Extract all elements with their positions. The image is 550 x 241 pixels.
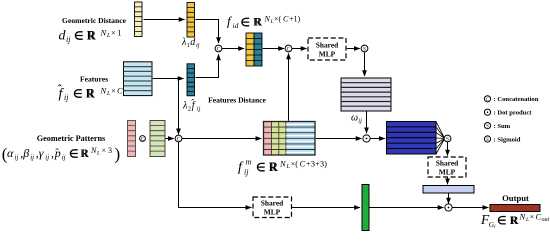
block: omega weights box (lavender striped) bbox=[341, 78, 391, 111]
wire: features to teal column arrow bbox=[153, 78, 184, 80]
wire: MLP3 down into attention bar bbox=[447, 178, 449, 185]
wire: C4 down then right to Shared MLP 2 bbox=[179, 142, 252, 208]
svg-text:L: L bbox=[525, 217, 529, 223]
svg-text:: Sum: : Sum bbox=[494, 123, 511, 130]
wire: f_id stack to C2 arrow bbox=[263, 48, 284, 50]
wire: S2 down into Shared MLP 3 bbox=[447, 142, 449, 156]
wire: C1 to f_id stack arrow bbox=[222, 48, 244, 50]
svg-text:×: × bbox=[530, 212, 535, 222]
wire: teal column right then up into C1 bbox=[196, 55, 219, 78]
svg-text:ˆ: ˆ bbox=[58, 81, 63, 96]
svg-text:: Dot product: : Dot product bbox=[494, 110, 533, 117]
block: pink pattern column bbox=[128, 121, 136, 157]
block: features box (striped light blue) bbox=[124, 62, 153, 96]
block: weighted feature stack (dark blue) bbox=[387, 122, 437, 155]
label: Geometric Distance bbox=[62, 16, 127, 25]
box: Shared MLP 2 (dashed, bottom) bbox=[253, 197, 292, 218]
svg-text:ij: ij bbox=[64, 93, 69, 102]
node: dot product circle D1 bbox=[363, 135, 370, 142]
svg-text:R: R bbox=[88, 29, 97, 43]
svg-text:S: S bbox=[486, 125, 489, 130]
svg-text:ij: ij bbox=[30, 154, 34, 162]
node: concatenation circle C3 (between pink and green) bbox=[140, 136, 146, 143]
svg-text:ij: ij bbox=[197, 106, 201, 113]
wire: bar down into dot product D2 bbox=[448, 193, 450, 203]
svg-text:Features Distance: Features Distance bbox=[208, 96, 266, 105]
svg-text:×: × bbox=[111, 28, 116, 38]
wire: f_ij^m stack up into C2 bbox=[288, 54, 290, 121]
legend: dot product bbox=[484, 109, 532, 117]
wire: omega box down into dot-product circle bbox=[366, 112, 368, 134]
svg-text:R: R bbox=[511, 213, 519, 227]
svg-text:Shared: Shared bbox=[436, 159, 459, 168]
box: Shared MLP 1 (dashed) bbox=[308, 38, 346, 60]
svg-text:ω: ω bbox=[351, 113, 358, 124]
wire: MLP1 to sigmoid arrow bbox=[347, 48, 360, 50]
wire: green bar to D2 arrow bbox=[369, 207, 443, 209]
block: green pattern column bbox=[150, 121, 165, 157]
svg-text:R: R bbox=[270, 160, 279, 174]
wire: col2 right then down into C1 bbox=[196, 20, 219, 44]
wire: MLP2 to green bar arrow bbox=[292, 207, 360, 209]
node: dot product circle D2 bbox=[445, 204, 452, 211]
svg-text:×: × bbox=[102, 146, 107, 155]
svg-text:N: N bbox=[90, 146, 97, 155]
block: geometric distance column (pale yellow) bbox=[135, 2, 143, 37]
svg-text:Shared: Shared bbox=[261, 199, 284, 208]
wire: D2 to output bar arrow bbox=[453, 207, 489, 209]
node: sum circle S2 bbox=[444, 135, 451, 143]
svg-text:: Sigmoid: : Sigmoid bbox=[494, 136, 521, 143]
node: concatenation circle C1 bbox=[215, 45, 222, 53]
label: Output bbox=[502, 193, 529, 203]
block: lambda2 f column (teal) bbox=[187, 64, 195, 96]
wire: D1 to dark blue stack arrow bbox=[371, 138, 385, 140]
svg-text:ij: ij bbox=[244, 168, 249, 177]
svg-text:N: N bbox=[264, 15, 271, 24]
svg-text:ij: ij bbox=[66, 35, 71, 44]
svg-text:+3+3): +3+3) bbox=[306, 159, 327, 169]
block: attention vector bar (periwinkle) bbox=[423, 186, 474, 194]
svg-text:Geometric Distance: Geometric Distance bbox=[62, 16, 127, 25]
legend: sigmoid bbox=[484, 136, 520, 144]
svg-text:m: m bbox=[246, 158, 252, 167]
block: f_id stack (yellow + teal columns) bbox=[246, 33, 262, 66]
svg-text:Geometric Patterns: Geometric Patterns bbox=[37, 134, 105, 143]
svg-text:L: L bbox=[270, 19, 274, 25]
svg-text:1: 1 bbox=[117, 28, 121, 38]
svg-text:Output: Output bbox=[502, 193, 529, 203]
block: output bar (dark red) bbox=[490, 205, 540, 212]
block: lambda1 d column (gold) bbox=[187, 3, 195, 38]
node: sigmoid circle S1 bbox=[361, 45, 368, 53]
svg-text:C: C bbox=[300, 159, 306, 169]
svg-text:×: × bbox=[111, 86, 116, 96]
svg-text:C: C bbox=[486, 98, 489, 103]
svg-text:+1): +1) bbox=[289, 15, 301, 24]
formula F_Gi in R^{N_L x C_out} bbox=[480, 212, 550, 231]
wire: green column to C4 arrow bbox=[166, 138, 174, 140]
svg-text:S: S bbox=[446, 137, 449, 143]
svg-text:Features: Features bbox=[80, 75, 108, 84]
node: concatenation circle C2 bbox=[285, 45, 292, 53]
wire: col1 to col2 arrow bbox=[144, 19, 185, 21]
svg-text:ij: ij bbox=[196, 42, 200, 49]
svg-text:R: R bbox=[87, 87, 96, 101]
svg-text:MLP: MLP bbox=[439, 168, 456, 177]
svg-text:α: α bbox=[7, 146, 14, 160]
node: concatenation circle C4 bbox=[175, 135, 182, 143]
svg-text:ij: ij bbox=[45, 154, 49, 162]
label: Features Distance bbox=[208, 96, 266, 105]
svg-text:×(: ×( bbox=[274, 15, 282, 24]
formula d_ij in R^{N_L x 1} bbox=[59, 28, 122, 45]
svg-text:C: C bbox=[287, 47, 291, 53]
svg-text:C: C bbox=[117, 86, 123, 96]
svg-text:Shared: Shared bbox=[316, 41, 339, 50]
wire: fan lines from dark stack to sum circle bbox=[436, 122, 444, 155]
svg-text:C: C bbox=[177, 137, 181, 143]
svg-text:C: C bbox=[217, 47, 221, 53]
wire: C2 to Shared MLP 1 arrow bbox=[292, 48, 307, 50]
svg-text:out: out bbox=[542, 217, 550, 223]
svg-text:×(: ×( bbox=[291, 159, 299, 169]
svg-text:MLP: MLP bbox=[264, 208, 281, 217]
svg-text:γ: γ bbox=[39, 146, 44, 160]
svg-text:ij: ij bbox=[62, 154, 66, 162]
wire: S1 down into omega box bbox=[364, 52, 366, 76]
svg-text:MLP: MLP bbox=[319, 50, 336, 59]
legend: concatenation bbox=[484, 96, 538, 103]
svg-text:S: S bbox=[486, 138, 489, 143]
svg-text:id: id bbox=[233, 21, 239, 30]
formula fhat_ij in R^{N_L x C} bbox=[58, 81, 124, 102]
svg-text:ij: ij bbox=[15, 154, 19, 162]
formula f_id in R^{N_L x (C+1)} bbox=[227, 14, 301, 31]
svg-text:: Concatenation: : Concatenation bbox=[494, 96, 539, 103]
svg-text:ij: ij bbox=[358, 117, 362, 124]
svg-text:3: 3 bbox=[108, 146, 112, 155]
legend: sum bbox=[484, 123, 510, 131]
label: omega_ij bbox=[351, 113, 362, 125]
formula f_ij^m in R^{N_L x (C+3+3)} bbox=[238, 158, 327, 177]
label: Features bbox=[80, 75, 108, 84]
svg-text:β: β bbox=[22, 146, 29, 160]
wire: f_ij^m stack to dot-product arrow bbox=[316, 138, 362, 140]
box: Shared MLP 3 (dashed) bbox=[428, 157, 466, 177]
svg-text:R: R bbox=[254, 15, 262, 29]
block: green feature bar bbox=[362, 185, 369, 231]
label: Geometric Patterns bbox=[37, 134, 105, 143]
formula (alpha,beta,gamma,phat_ij in R^{N_L x 3}) bbox=[2, 145, 120, 164]
wire: features branch down into C4 bbox=[178, 79, 180, 135]
svg-text:L: L bbox=[96, 151, 100, 157]
svg-text:S: S bbox=[363, 47, 366, 53]
svg-text:,: , bbox=[51, 146, 54, 160]
svg-text:): ) bbox=[115, 145, 121, 164]
block: f_ij^m stack (pink + green + blue) bbox=[264, 122, 316, 156]
svg-text:R: R bbox=[81, 148, 89, 160]
label: lambda1 d_ij bbox=[181, 37, 200, 49]
svg-text:ˆ: ˆ bbox=[191, 98, 194, 108]
label: lambda2 fhat_ij bbox=[182, 98, 201, 113]
wire: C4 to f_ij^m stack arrow bbox=[182, 138, 261, 140]
svg-text:ˆ: ˆ bbox=[55, 147, 59, 159]
